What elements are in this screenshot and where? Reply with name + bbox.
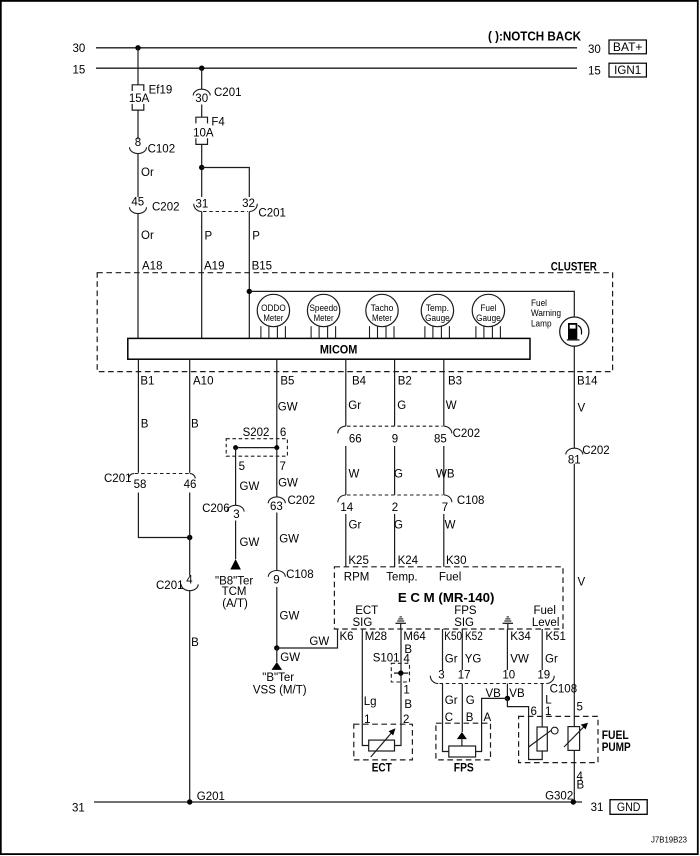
svg-text:C108: C108 bbox=[550, 683, 578, 695]
wire K51 upper (Gr) bbox=[541, 629, 543, 670]
svg-text:C108: C108 bbox=[457, 495, 485, 507]
wire K34 upper (VW) bbox=[506, 629, 508, 670]
node IGN1 bbox=[609, 63, 646, 77]
svg-text:C202: C202 bbox=[453, 428, 481, 440]
wire 63 to C108-9 (GW) bbox=[276, 513, 278, 571]
svg-text:C108: C108 bbox=[286, 569, 314, 581]
gauge ODDO Meter bbox=[257, 294, 289, 338]
node 30 label left bbox=[73, 43, 86, 55]
FPS box bbox=[436, 723, 491, 760]
svg-text:30: 30 bbox=[588, 44, 601, 56]
svg-text:GND: GND bbox=[617, 802, 641, 814]
wire 3 to FPS C (Gr) bbox=[443, 684, 449, 752]
fuse Ef19 15A bbox=[129, 85, 172, 111]
fuse F4 10A bbox=[193, 117, 225, 145]
svg-text:GW: GW bbox=[278, 402, 298, 414]
svg-text:FPS: FPS bbox=[454, 763, 474, 775]
svg-text:C202: C202 bbox=[152, 201, 180, 213]
svg-text:SIG: SIG bbox=[353, 617, 373, 629]
wire lamp to B14 bbox=[573, 346, 575, 371]
svg-text:(A/T): (A/T) bbox=[222, 598, 248, 610]
svg-text:15A: 15A bbox=[129, 93, 150, 105]
svg-text:A19: A19 bbox=[204, 261, 224, 273]
gauge Temp. Gauge bbox=[421, 294, 453, 338]
ground FPS bbox=[503, 617, 513, 629]
svg-text:B15: B15 bbox=[252, 261, 272, 273]
ground ECT bbox=[396, 617, 406, 629]
pin M64 bbox=[403, 631, 426, 643]
node G201 bbox=[187, 791, 225, 805]
svg-text:K25: K25 bbox=[348, 555, 368, 567]
resistor FPS bbox=[449, 746, 476, 757]
svg-text:B: B bbox=[191, 637, 199, 649]
svg-text:3: 3 bbox=[438, 669, 444, 681]
svg-text:Gr: Gr bbox=[445, 695, 458, 707]
pin B15 bbox=[252, 261, 272, 273]
resistor fuel pump bbox=[564, 723, 588, 751]
label P right bbox=[252, 231, 260, 243]
connector C201 pin 4 bbox=[156, 574, 198, 592]
label 4 M64 bbox=[403, 654, 410, 666]
label 2 ECT bbox=[403, 714, 409, 726]
wire branch to pin 32 bbox=[202, 168, 250, 198]
wire B14 (V) bbox=[573, 372, 575, 449]
svg-text:31: 31 bbox=[591, 802, 604, 814]
svg-text:A: A bbox=[484, 712, 492, 724]
svg-text:Gauge: Gauge bbox=[476, 313, 501, 324]
svg-text:10: 10 bbox=[502, 669, 515, 681]
svg-text:5: 5 bbox=[577, 702, 583, 714]
svg-text:K30: K30 bbox=[446, 555, 466, 567]
connector C202 pin 63 bbox=[268, 495, 315, 513]
label B col2 lower bbox=[191, 637, 199, 649]
svg-text:GW: GW bbox=[309, 636, 329, 648]
fuel warning lamp bbox=[560, 317, 589, 346]
label Gr 14 bbox=[349, 520, 362, 532]
svg-text:G: G bbox=[394, 468, 403, 480]
svg-text:"B"Ter: "B"Ter bbox=[262, 672, 294, 684]
svg-text:85: 85 bbox=[434, 434, 447, 446]
gauge Tacho Meter bbox=[366, 294, 398, 338]
node 30 label right bbox=[588, 44, 601, 56]
wire junction to VSS (GW) bbox=[276, 648, 278, 662]
svg-text:Or: Or bbox=[141, 167, 154, 179]
label FPS bbox=[454, 763, 474, 775]
label 1 sender bbox=[545, 706, 551, 718]
svg-text:WB: WB bbox=[436, 468, 455, 480]
wire 7 to K30 (W) bbox=[443, 514, 445, 567]
pin B14 bbox=[577, 375, 598, 387]
svg-text:Gr: Gr bbox=[349, 520, 362, 532]
svg-text:14: 14 bbox=[340, 502, 353, 514]
svg-text:C201: C201 bbox=[104, 473, 132, 485]
svg-text:Level: Level bbox=[532, 617, 560, 629]
wire to K6 bbox=[277, 629, 338, 648]
wire 9 to VSS junction (GW) bbox=[276, 587, 278, 648]
label L bbox=[545, 695, 552, 707]
svg-text:46: 46 bbox=[184, 479, 197, 491]
svg-text:66: 66 bbox=[349, 434, 362, 446]
wire VB to sender bbox=[507, 698, 542, 759]
svg-text:B5: B5 bbox=[280, 375, 294, 387]
node G302 bbox=[545, 791, 576, 805]
svg-text:CLUSTER: CLUSTER bbox=[551, 260, 597, 274]
svg-text:ECT: ECT bbox=[355, 605, 378, 617]
svg-text:B: B bbox=[141, 419, 149, 431]
svg-text:GW: GW bbox=[280, 652, 300, 664]
svg-text:W: W bbox=[349, 468, 360, 480]
wire A10 (B) bbox=[189, 359, 191, 473]
svg-text:B: B bbox=[577, 780, 585, 792]
label 1 ECT bbox=[364, 714, 370, 726]
svg-text:Or: Or bbox=[141, 230, 154, 242]
svg-text:B4: B4 bbox=[352, 375, 367, 387]
svg-text:32: 32 bbox=[242, 198, 255, 210]
svg-text:B1: B1 bbox=[140, 375, 154, 387]
svg-text:4: 4 bbox=[186, 574, 193, 586]
svg-text:C201: C201 bbox=[156, 580, 184, 592]
wire bus 30 bbox=[96, 47, 577, 49]
label GW B5 bbox=[278, 402, 298, 414]
svg-text:45: 45 bbox=[131, 197, 144, 209]
wire C206 to TCM (GW) bbox=[235, 521, 237, 560]
wire K52 upper (YG) bbox=[461, 629, 463, 670]
pin K34 bbox=[510, 631, 531, 643]
splice S101 bbox=[373, 653, 410, 683]
svg-text:V: V bbox=[578, 577, 586, 589]
svg-text:L: L bbox=[545, 695, 552, 707]
connector C202 pins 66/9/85 bbox=[338, 426, 480, 446]
label V lower bbox=[578, 577, 586, 589]
label Fuel in bbox=[439, 571, 461, 583]
pin K6 bbox=[340, 631, 354, 643]
svg-text:J7B19B23: J7B19B23 bbox=[651, 836, 688, 845]
label 7 bbox=[280, 461, 286, 473]
svg-text:Lg: Lg bbox=[364, 696, 377, 708]
svg-text:C102: C102 bbox=[148, 143, 176, 155]
splice S202 bbox=[226, 427, 287, 456]
junction F4 split bbox=[199, 165, 204, 170]
svg-text:SIG: SIG bbox=[454, 617, 474, 629]
label GW 63 bbox=[279, 534, 299, 546]
pin B1 bbox=[140, 375, 154, 387]
gauge Fuel Gauge bbox=[472, 294, 504, 338]
label YG K52 bbox=[465, 654, 482, 666]
svg-text:Warning: Warning bbox=[531, 308, 561, 319]
svg-text:Gr: Gr bbox=[348, 400, 361, 412]
svg-text:Ef19: Ef19 bbox=[149, 85, 173, 97]
svg-text:9: 9 bbox=[392, 434, 398, 446]
junction VB bbox=[505, 696, 510, 701]
wire bus30 to Ef19 bbox=[137, 48, 139, 85]
wire C102 to C202 (Or) bbox=[137, 154, 139, 197]
wire ground bus bbox=[94, 801, 582, 803]
pin A10 bbox=[193, 375, 213, 387]
junction VSS bbox=[274, 645, 279, 650]
svg-text:RPM: RPM bbox=[344, 571, 370, 583]
svg-text:A18: A18 bbox=[142, 261, 162, 273]
svg-text:V: V bbox=[578, 403, 586, 415]
svg-text:W: W bbox=[446, 400, 457, 412]
svg-text:15: 15 bbox=[73, 65, 86, 77]
ECM title bbox=[398, 590, 495, 605]
node 15 label right bbox=[588, 66, 601, 78]
node BAT+ bbox=[609, 40, 646, 54]
terminal TCM triangle bbox=[230, 559, 241, 570]
label W 7 bbox=[445, 520, 456, 532]
pin B5 bbox=[280, 375, 294, 387]
svg-text:31: 31 bbox=[196, 198, 209, 210]
svg-text:30: 30 bbox=[73, 43, 86, 55]
svg-text:C201: C201 bbox=[258, 207, 286, 219]
svg-text:MICOM: MICOM bbox=[320, 342, 358, 356]
wire VB to FPS A bbox=[476, 698, 508, 751]
wire 46 down bbox=[189, 493, 191, 576]
svg-text:6: 6 bbox=[280, 427, 286, 439]
svg-text:7: 7 bbox=[280, 461, 286, 473]
label G B2 bbox=[397, 400, 406, 412]
label VB right bbox=[509, 688, 525, 700]
svg-text:S202: S202 bbox=[243, 427, 270, 439]
svg-text:K6: K6 bbox=[340, 631, 354, 643]
wire K50 upper (Gr) bbox=[442, 629, 444, 670]
label Gr K50 bbox=[445, 654, 458, 666]
svg-text:C: C bbox=[445, 712, 453, 724]
wire B2 (G) bbox=[394, 359, 396, 426]
label FUEL PUMP bbox=[602, 730, 631, 754]
wire triangle to resistor bbox=[461, 739, 463, 746]
wire 19 to sender (L) bbox=[541, 684, 543, 728]
svg-text:W: W bbox=[445, 520, 456, 532]
svg-text:M64: M64 bbox=[403, 631, 426, 643]
junction B join bbox=[187, 535, 192, 540]
label WB 85 bbox=[436, 468, 455, 480]
label VB left bbox=[486, 688, 502, 700]
svg-text:Temp.: Temp. bbox=[386, 572, 417, 584]
wire lamp feed bbox=[249, 291, 574, 317]
wire F4 to junction bbox=[201, 144, 203, 167]
svg-text:Fuel: Fuel bbox=[439, 571, 461, 583]
wire B15 (P) bbox=[248, 212, 250, 339]
wire B5 (GW) bbox=[276, 359, 278, 447]
pin B2 bbox=[398, 375, 412, 387]
fuel pump box bbox=[519, 716, 598, 762]
wire bus15 to C201-30 bbox=[201, 68, 203, 89]
pin A18 bbox=[142, 261, 162, 273]
ECM box bbox=[334, 567, 563, 629]
wire C201-30 to F4 bbox=[201, 105, 203, 118]
svg-text:G: G bbox=[394, 520, 403, 532]
svg-text:P: P bbox=[252, 231, 260, 243]
wire 9-2 (G) bbox=[394, 446, 396, 495]
label GW 5 bbox=[240, 481, 260, 493]
connector C108 pins 3/17/10/19 bbox=[430, 669, 577, 695]
pin K24 bbox=[398, 555, 419, 567]
wire 14 to K25 (Gr) bbox=[345, 514, 347, 567]
label ECT SIG bbox=[353, 605, 379, 629]
label B Ter VSS bbox=[253, 672, 307, 697]
svg-text:G: G bbox=[466, 695, 475, 707]
svg-text:63: 63 bbox=[270, 501, 283, 513]
connector C201 pins 31/32 bbox=[194, 198, 286, 220]
label G 17 bbox=[466, 695, 475, 707]
svg-text:VB: VB bbox=[509, 688, 525, 700]
svg-text:B14: B14 bbox=[577, 375, 598, 387]
svg-text:G302: G302 bbox=[545, 791, 573, 803]
pin M28 bbox=[365, 631, 387, 643]
wire 2 to K24 (G) bbox=[394, 514, 396, 567]
label GW 7 bbox=[278, 478, 298, 490]
svg-text:K50: K50 bbox=[444, 631, 462, 643]
svg-text:B: B bbox=[404, 699, 412, 711]
svg-text:C206: C206 bbox=[202, 503, 230, 515]
wire to G201 (B) bbox=[189, 591, 191, 802]
label Lg bbox=[364, 696, 377, 708]
connector C206 pin 3 bbox=[202, 503, 244, 521]
label 6 S202 bbox=[280, 427, 286, 439]
connector C108 pin 9 bbox=[268, 569, 313, 587]
svg-text:M28: M28 bbox=[365, 631, 387, 643]
svg-text:2: 2 bbox=[392, 502, 398, 514]
svg-text:9: 9 bbox=[273, 574, 279, 586]
label B8 Ter TCM bbox=[215, 576, 253, 610]
wire bus 15 bbox=[96, 67, 577, 69]
label Gr 3 bbox=[445, 695, 458, 707]
wire A19 (P) bbox=[201, 212, 203, 339]
note NOTCH BACK bbox=[488, 28, 582, 43]
label V B14 bbox=[578, 403, 586, 415]
wire B4 (Gr) bbox=[345, 359, 347, 426]
label 6 sender bbox=[531, 706, 537, 718]
svg-text:C201: C201 bbox=[214, 87, 242, 99]
svg-text:Gauge: Gauge bbox=[425, 313, 450, 324]
pin K25 bbox=[348, 555, 368, 567]
pin B4 bbox=[352, 375, 367, 387]
wire C202 to cluster A18 (Or) bbox=[137, 214, 139, 339]
svg-text:Lamp: Lamp bbox=[531, 319, 552, 330]
svg-text:TCM: TCM bbox=[222, 586, 247, 598]
doc number bbox=[651, 836, 688, 845]
pin K50 bbox=[444, 631, 462, 643]
label FPS SIG bbox=[454, 605, 477, 629]
svg-text:Meter: Meter bbox=[263, 313, 283, 324]
wire pump to G302 (B) bbox=[573, 750, 575, 802]
svg-text:G201: G201 bbox=[197, 791, 225, 803]
svg-text:YG: YG bbox=[465, 654, 482, 666]
svg-text:ECT: ECT bbox=[372, 763, 392, 775]
wire S202-7 down (GW) bbox=[276, 448, 278, 497]
svg-text:S101: S101 bbox=[373, 653, 400, 665]
label Gr B4 bbox=[348, 400, 361, 412]
svg-text:VW: VW bbox=[510, 654, 529, 666]
node GND bbox=[610, 800, 647, 815]
label G 2 bbox=[394, 520, 403, 532]
svg-text:E C M (MR-140): E C M (MR-140) bbox=[398, 590, 495, 605]
ECT box bbox=[354, 724, 413, 760]
junction bus15/C201 bbox=[199, 66, 204, 71]
svg-text:VSS (M/T): VSS (M/T) bbox=[253, 685, 307, 697]
wire junction to pin 31 bbox=[201, 168, 203, 198]
svg-text:BAT+: BAT+ bbox=[613, 42, 643, 54]
label P left bbox=[205, 231, 213, 243]
svg-text:17: 17 bbox=[458, 669, 471, 681]
wire 10 to VB junction bbox=[506, 684, 508, 699]
resistor fuel sender bbox=[529, 727, 559, 751]
label C FPS bbox=[445, 712, 453, 724]
wire 81 to fuel pump (V) bbox=[573, 464, 575, 727]
svg-text:GW: GW bbox=[240, 537, 260, 549]
label 31 left bbox=[72, 803, 85, 815]
label 5 bbox=[239, 461, 245, 473]
label B pump bbox=[577, 780, 585, 792]
connector C108 pins 14/2/7 bbox=[338, 495, 485, 514]
label Or bbox=[141, 167, 154, 179]
svg-text:( ):NOTCH BACK: ( ):NOTCH BACK bbox=[488, 28, 582, 43]
svg-text:G: G bbox=[397, 400, 406, 412]
svg-text:GW: GW bbox=[280, 611, 300, 623]
label B col1 bbox=[141, 419, 149, 431]
wire B3 (W) bbox=[443, 359, 445, 426]
label B FPS bbox=[466, 712, 474, 724]
label W 66 bbox=[349, 468, 360, 480]
junction B15 lamp feed bbox=[247, 289, 252, 294]
label B col2 bbox=[191, 419, 199, 431]
wire 58 down to corner bbox=[138, 493, 189, 538]
wire B1 (B) bbox=[137, 359, 139, 473]
wire Ef19 to C102 bbox=[137, 110, 139, 139]
svg-text:Gr: Gr bbox=[545, 654, 558, 666]
pin K30 bbox=[446, 555, 466, 567]
label ECT bbox=[372, 763, 392, 775]
pin B3 bbox=[448, 375, 462, 387]
svg-text:B2: B2 bbox=[398, 375, 412, 387]
svg-text:3: 3 bbox=[233, 509, 239, 521]
svg-text:GW: GW bbox=[279, 534, 299, 546]
svg-text:10A: 10A bbox=[193, 128, 214, 140]
svg-text:Fuel: Fuel bbox=[534, 605, 556, 617]
label 31 right bbox=[591, 802, 604, 814]
svg-text:15: 15 bbox=[588, 66, 601, 78]
wire 17 to FPS B (G) bbox=[461, 684, 463, 733]
label G 9 bbox=[394, 468, 403, 480]
pin K52 bbox=[465, 631, 483, 643]
wire 85-7 (WB) bbox=[443, 446, 445, 495]
svg-text:5: 5 bbox=[239, 461, 245, 473]
pin A19 bbox=[204, 261, 224, 273]
label Temp. bbox=[386, 572, 417, 584]
svg-text:A10: A10 bbox=[193, 375, 213, 387]
connector C201 pins 58/46 bbox=[104, 473, 196, 491]
svg-text:B: B bbox=[191, 419, 199, 431]
label 1 S101 bbox=[403, 684, 409, 696]
MICOM bbox=[128, 338, 530, 359]
svg-text:K51: K51 bbox=[545, 631, 565, 643]
wire M64 (B) bbox=[395, 629, 402, 746]
label GW K6 bbox=[309, 636, 329, 648]
terminal VSS triangle bbox=[272, 662, 283, 670]
connector C201 pin 30 bbox=[193, 87, 241, 105]
svg-text:PUMP: PUMP bbox=[602, 742, 631, 754]
svg-text:7: 7 bbox=[442, 502, 448, 514]
svg-text:8: 8 bbox=[135, 137, 141, 149]
wire 66-14 (W) bbox=[345, 446, 347, 495]
svg-text:GW: GW bbox=[240, 481, 260, 493]
label Gr K51 bbox=[545, 654, 558, 666]
svg-text:Meter: Meter bbox=[372, 313, 392, 324]
node 15 label left bbox=[73, 65, 86, 77]
connector C202 pin 81 bbox=[566, 445, 610, 467]
svg-text:Gr: Gr bbox=[445, 654, 458, 666]
